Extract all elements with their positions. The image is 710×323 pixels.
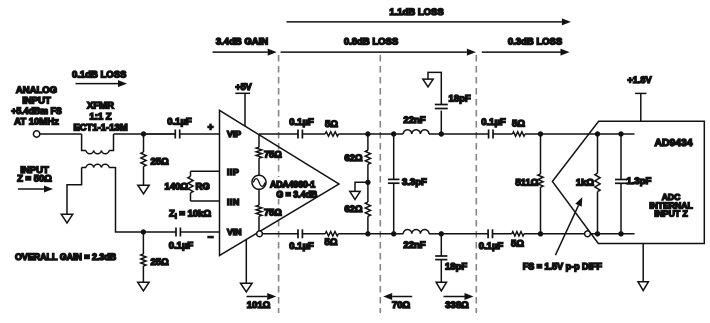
capacitor 3.3pF shunt	[393, 134, 395, 179]
node 3.3pF top	[391, 131, 396, 136]
svg-text:25Ω: 25Ω	[151, 257, 170, 268]
svg-text:3.4dB GAIN: 3.4dB GAIN	[216, 36, 268, 47]
resistor 511 ohm	[540, 134, 542, 174]
svg-text:0.1µF: 0.1µF	[289, 117, 314, 128]
node 18pF top	[439, 131, 444, 136]
svg-text:INPUT Z: INPUT Z	[654, 209, 687, 219]
node 1k ohm bottom	[595, 231, 600, 236]
svg-text:0.1µF: 0.1µF	[169, 241, 194, 252]
wire to filter	[368, 133, 394, 135]
svg-text:5Ω: 5Ω	[325, 237, 338, 248]
wire secondary left to ground	[67, 168, 82, 215]
arrow 1.1dB LOSS	[287, 21, 562, 23]
wire primary to junction	[114, 133, 176, 135]
svg-text:101Ω: 101Ω	[247, 300, 271, 311]
arrow input Z	[18, 188, 44, 190]
ground centre tap	[350, 191, 360, 199]
resistor 25 ohm (top)	[143, 134, 145, 152]
svg-text:FS = 1.5V p-p DIFF: FS = 1.5V p-p DIFF	[523, 261, 603, 271]
svg-text:ZI = 10kΩ: ZI = 10kΩ	[169, 209, 211, 221]
node top rail / 25 ohm junction	[141, 131, 146, 136]
svg-text:VIN: VIN	[227, 227, 241, 237]
capacitor 18pF (bottom) to ground	[440, 234, 442, 256]
svg-text:XFMR: XFMR	[87, 100, 114, 111]
svg-text:5Ω: 5Ω	[325, 119, 338, 130]
svg-text:IIN: IIN	[227, 197, 240, 207]
internal resistor 75 ohm (upper)	[258, 134, 260, 147]
op-amp ground	[245, 240, 247, 284]
svg-text:22nF: 22nF	[403, 240, 425, 251]
node 511 ohm bottom	[538, 231, 543, 236]
resistor 25 ohm (bottom)	[142, 232, 144, 254]
svg-text:5Ω: 5Ω	[511, 238, 524, 249]
svg-text:IIP: IIP	[227, 167, 239, 177]
svg-text:70Ω: 70Ω	[392, 300, 411, 311]
svg-text:1:1 Z: 1:1 Z	[89, 112, 111, 123]
capacitor 1.3pF internal	[620, 134, 622, 180]
output node VON (open circle)	[257, 231, 263, 237]
dashed separator line 1	[278, 55, 280, 313]
svg-text:1.1dB LOSS: 1.1dB LOSS	[389, 7, 443, 18]
resistor 1k ohm internal	[597, 134, 599, 173]
wire cap to VIN	[180, 231, 219, 233]
resistor 62 ohm (upper)	[367, 134, 369, 150]
svg-text:18pF: 18pF	[449, 94, 471, 105]
node 18pF bottom	[439, 231, 444, 236]
arrow 0.3dB LOSS	[482, 51, 561, 53]
svg-text:0.8dB LOSS: 0.8dB LOSS	[344, 36, 398, 47]
arrow 70 ohm	[392, 296, 412, 298]
svg-text:OVERALL GAIN = 2.3dB: OVERALL GAIN = 2.3dB	[15, 252, 116, 262]
ground below top 25 ohm	[138, 185, 149, 194]
dashed separator line 3	[475, 55, 477, 313]
svg-text:0.1µF: 0.1µF	[479, 241, 504, 252]
svg-text:VIP: VIP	[227, 129, 241, 139]
ground below bottom 25 ohm	[138, 282, 149, 291]
svg-text:ANALOG: ANALOG	[16, 85, 57, 96]
svg-text:0.1µF: 0.1µF	[289, 241, 314, 252]
node 62 ohm centre	[365, 180, 370, 185]
svg-text:−: −	[208, 232, 214, 243]
wire filter to right section	[441, 133, 488, 135]
svg-text:5Ω: 5Ω	[512, 119, 525, 130]
label ADA4960-1 / G = 3.4dB	[270, 177, 324, 189]
svg-text:0.1µF: 0.1µF	[481, 117, 506, 128]
node 1.3pF bottom	[618, 231, 623, 236]
ground above top 18pF	[423, 79, 433, 87]
svg-text:1.3pF: 1.3pF	[627, 176, 652, 187]
transformer T1 secondary	[82, 167, 86, 169]
svg-text:AT 10MHz: AT 10MHz	[14, 117, 59, 128]
svg-text:INPUT: INPUT	[22, 96, 51, 107]
svg-text:511Ω: 511Ω	[515, 177, 538, 188]
arrow 0.1dB LOSS	[76, 83, 119, 85]
resistor 62 ohm (lower)	[367, 182, 369, 202]
svg-text:0.1dB LOSS: 0.1dB LOSS	[72, 70, 126, 81]
wire to ADC	[541, 133, 635, 135]
node ADC input (open circle)	[585, 231, 591, 237]
node 62 ohm bottom	[365, 231, 370, 236]
node 1k ohm top	[595, 131, 600, 136]
node 3.3pF bottom	[391, 231, 396, 236]
svg-text:ECT1-1-13M: ECT1-1-13M	[73, 123, 127, 134]
svg-text:+: +	[208, 123, 214, 134]
svg-text:RG: RG	[196, 181, 210, 192]
svg-text:62Ω: 62Ω	[344, 153, 363, 164]
svg-text:G = 3.4dB: G = 3.4dB	[276, 190, 317, 200]
svg-text:75Ω: 75Ω	[264, 149, 282, 159]
transformer T1 primary	[82, 134, 86, 151]
arrow 0.8dB LOSS	[281, 51, 467, 53]
svg-text:1kΩ: 1kΩ	[576, 178, 595, 189]
arrow 3.4dB GAIN	[213, 51, 268, 53]
ADC U2 AD9434 outline	[552, 121, 704, 243]
input terminal	[33, 131, 39, 137]
wire centre to ground	[355, 182, 368, 191]
node 511 ohm top	[538, 131, 543, 136]
arrow 338 ohm	[444, 296, 465, 298]
arrow FS to input	[555, 205, 578, 255]
ADC ground	[642, 244, 644, 282]
svg-text:3.3pF: 3.3pF	[402, 177, 427, 188]
wire input to transformer	[40, 133, 82, 135]
svg-text:140Ω: 140Ω	[165, 181, 189, 192]
capacitor 0.1uF (top left)	[144, 133, 176, 135]
svg-text:338Ω: 338Ω	[445, 300, 469, 311]
internal source symbol	[252, 175, 266, 189]
node 62 ohm top	[365, 131, 370, 136]
node 1.3pF top	[618, 131, 623, 136]
svg-text:ADA4960-1: ADA4960-1	[270, 179, 315, 189]
op-amp U1 ADA4960-1 triangle	[220, 110, 340, 255]
node bottom rail / 25 ohm junction	[141, 229, 146, 234]
ground below bottom 18pF	[436, 282, 446, 291]
ground secondary	[61, 214, 72, 223]
svg-text:22nF: 22nF	[403, 115, 425, 126]
wire cap to VIP	[180, 133, 220, 135]
svg-text:0.3dB LOSS: 0.3dB LOSS	[508, 36, 562, 47]
svg-text:+5V: +5V	[235, 82, 251, 92]
internal resistor 75 ohm (lower)	[258, 189, 260, 205]
wire secondary right to bottom rail	[116, 167, 144, 232]
svg-text:75Ω: 75Ω	[264, 207, 282, 217]
svg-text:Z = 50Ω: Z = 50Ω	[17, 173, 52, 184]
svg-text:+1.8V: +1.8V	[627, 75, 652, 85]
svg-text:25Ω: 25Ω	[151, 157, 170, 168]
capacitor 0.1uF (bottom left)	[143, 231, 176, 233]
capacitor 18pF (top) to ground	[440, 111, 442, 134]
svg-text:0.1µF: 0.1µF	[167, 116, 192, 127]
svg-text:AD9434: AD9434	[654, 138, 692, 149]
arrow 101 ohm	[247, 296, 268, 298]
svg-text:18pF: 18pF	[445, 262, 467, 273]
svg-text:+5.4dBm FS: +5.4dBm FS	[11, 106, 62, 116]
wire amp bottom output	[262, 233, 298, 235]
dashed separator line 2	[379, 55, 381, 313]
wire amp top output	[259, 133, 298, 135]
svg-text:62Ω: 62Ω	[344, 204, 363, 215]
resistor RG 140 ohm	[191, 170, 220, 172]
